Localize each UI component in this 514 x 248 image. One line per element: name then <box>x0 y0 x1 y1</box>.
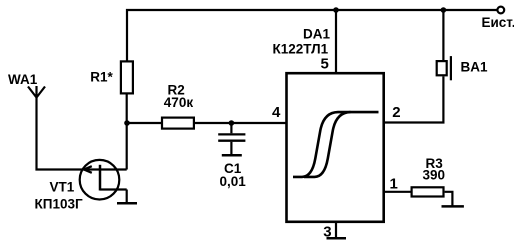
svg-text:Еист.: Еист. <box>482 15 514 30</box>
node junction BA1 on rail <box>441 7 447 13</box>
ground under C1 <box>222 154 242 157</box>
ground pin 3 <box>327 237 347 240</box>
antenna WA1 <box>28 86 45 98</box>
ground after R3 <box>442 205 464 208</box>
wire drain to junction <box>126 95 128 170</box>
svg-text:КП103Г: КП103Г <box>35 197 83 212</box>
transistor VT1 <box>80 160 127 200</box>
node junction R1/R2/drain <box>124 120 130 126</box>
capacitor C1 <box>218 123 245 154</box>
wire BA1 top <box>442 10 444 60</box>
terminal Еист <box>497 7 504 14</box>
op-amp U1: IC DA1 box <box>287 73 384 222</box>
svg-text:1: 1 <box>390 176 398 193</box>
node junction C1 <box>229 120 235 126</box>
svg-text:470к: 470к <box>164 95 194 110</box>
svg-text:390: 390 <box>423 167 446 182</box>
ground under VT1 <box>126 190 128 204</box>
wire main to IC pin 4 <box>127 122 287 124</box>
svg-text:DA1: DA1 <box>303 27 330 42</box>
wire top rail <box>127 10 497 61</box>
svg-text:WA1: WA1 <box>8 72 38 87</box>
wire pin 2 to BA1 <box>384 77 444 123</box>
speaker BA1 <box>437 56 451 80</box>
wire pin 1 to R3 <box>384 191 411 193</box>
resistor R2 <box>162 118 194 129</box>
hysteresis curve <box>293 112 379 177</box>
wire antenna to gate <box>37 96 100 170</box>
svg-text:2: 2 <box>392 104 400 121</box>
wire R3 to ground <box>445 192 453 206</box>
wire pin 3 <box>335 222 337 238</box>
svg-text:BA1: BA1 <box>461 59 488 74</box>
svg-text:3: 3 <box>323 223 331 240</box>
svg-text:4: 4 <box>272 104 281 121</box>
svg-text:5: 5 <box>321 55 329 72</box>
svg-text:VT1: VT1 <box>50 180 75 195</box>
svg-text:0,01: 0,01 <box>220 174 247 189</box>
svg-text:К122ТЛ1: К122ТЛ1 <box>273 42 329 57</box>
wire pin 5 <box>335 10 337 74</box>
svg-text:R1*: R1* <box>90 70 113 85</box>
resistor R1 <box>121 61 133 93</box>
node junction pin5 on rail <box>333 7 339 13</box>
resistor R3 <box>412 187 444 196</box>
